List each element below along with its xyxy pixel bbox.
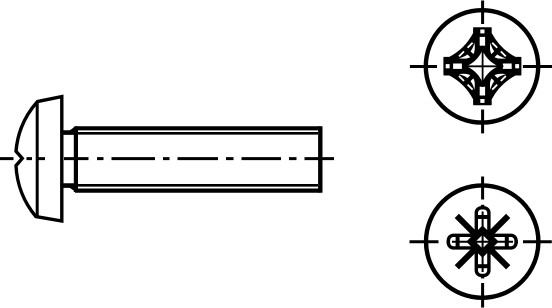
shank crest line top (major diameter) [75, 126, 321, 130]
top circle: head outline (Phillips view) [426, 10, 538, 122]
Phillips tip dents (white) [446, 29, 519, 102]
Phillips central white [466, 50, 498, 82]
Pozidriv recess [447, 205, 518, 279]
bottom circle: head outline (Pozidriv view) [426, 185, 538, 297]
neck bar + thread run-out chamfer top [62, 126, 78, 135]
shank crest line bottom [75, 189, 321, 193]
top circle centerline ticks [410, 1, 552, 134]
slot inner ticks [458, 217, 507, 266]
shank end face [318, 126, 322, 193]
thread start vertical line [74, 127, 78, 193]
diagonal wedge NW [457, 216, 476, 235]
bottom circle thin center cross [452, 212, 513, 273]
diagonal wedge NE [489, 216, 508, 235]
top circle thin center cross [462, 46, 503, 87]
center white diamond [476, 235, 490, 249]
Phillips edge slivers (white) [459, 43, 506, 90]
thread root line top (minor diameter) [78, 132, 318, 135]
center black diamond [466, 225, 498, 257]
side view: centerline (dash-dot) [0, 157, 334, 160]
horizontal slot outline [448, 235, 516, 248]
Phillips recess (cross recess type H) silhouette [444, 28, 521, 105]
diagonal wedge SE [489, 248, 508, 267]
slot tip nubs [447, 205, 518, 279]
Phillips flank bridges (black) [465, 49, 500, 84]
head inner vertical line (dome/cylinder junction) [36, 102, 39, 217]
thread root line bottom [78, 184, 318, 187]
Phillips slot channels (white) [453, 37, 512, 96]
vertical slot outline [476, 208, 489, 276]
screw head outline (side view, dome left, face right) [16, 97, 62, 221]
diagonal wedge SW [457, 248, 476, 267]
Phillips wing whites (slashes) [459, 43, 506, 90]
neck bar + thread run-out chamfer bottom [62, 183, 78, 192]
bottom circle centerline ticks [410, 177, 552, 308]
